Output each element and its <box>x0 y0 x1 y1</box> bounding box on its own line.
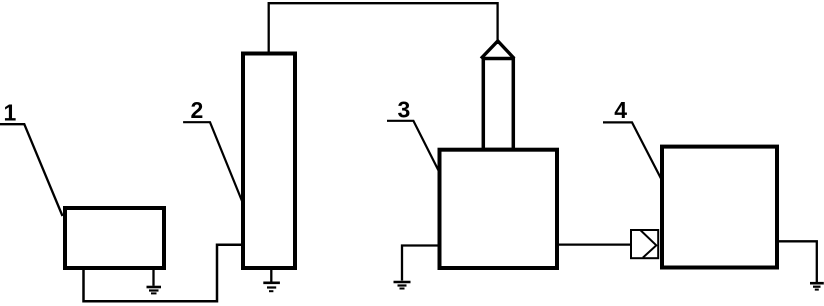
ground right of unit 4 <box>810 283 824 289</box>
leader line for label 3 <box>387 121 439 171</box>
box 2 (tall column) <box>243 54 295 269</box>
wire: unit 1 bottom to unit 2 lower-left inlet <box>84 245 243 301</box>
svg-text:3: 3 <box>398 97 411 123</box>
leader line for label 2 <box>183 122 242 201</box>
cone on top of stack <box>481 41 514 59</box>
svg-text:2: 2 <box>191 97 204 123</box>
ground under unit 1 <box>147 268 162 293</box>
chimney stack on unit 3 <box>483 59 513 150</box>
wire: unit 3 left to ground <box>402 246 439 281</box>
box 4 <box>662 147 777 268</box>
wire: unit 4 right to ground <box>778 241 817 282</box>
wire: top pipe from unit 2 up, across, and down to stack cone <box>269 3 498 53</box>
box 1 <box>65 208 164 268</box>
svg-text:4: 4 <box>614 97 627 123</box>
svg-text:1: 1 <box>4 100 17 126</box>
fan box between unit 3 and unit 4 <box>631 230 658 258</box>
leader line for label 1 <box>0 124 63 216</box>
fan chevron <box>640 230 656 258</box>
wire: unit 3 right to fan <box>558 243 631 245</box>
ground left of unit 3 <box>394 282 411 289</box>
ground under unit 2 <box>263 268 280 291</box>
box 3 <box>440 150 558 268</box>
leader line for label 4 <box>603 122 662 179</box>
